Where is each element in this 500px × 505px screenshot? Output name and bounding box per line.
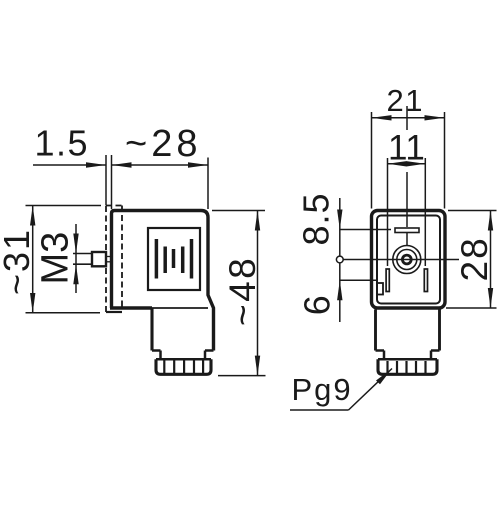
svg-text:6: 6 [297, 295, 338, 315]
svg-text:~28: ~28 [125, 123, 201, 165]
svg-text:1.5: 1.5 [35, 123, 90, 164]
svg-text:~48: ~48 [222, 256, 263, 326]
svg-text:11: 11 [388, 129, 425, 168]
svg-text:8.5: 8.5 [295, 192, 336, 245]
svg-text:28: 28 [454, 236, 495, 281]
svg-text:21: 21 [387, 83, 424, 118]
svg-text:~31: ~31 [0, 228, 37, 295]
svg-text:M3: M3 [35, 232, 77, 285]
svg-text:Pg9: Pg9 [292, 372, 353, 407]
